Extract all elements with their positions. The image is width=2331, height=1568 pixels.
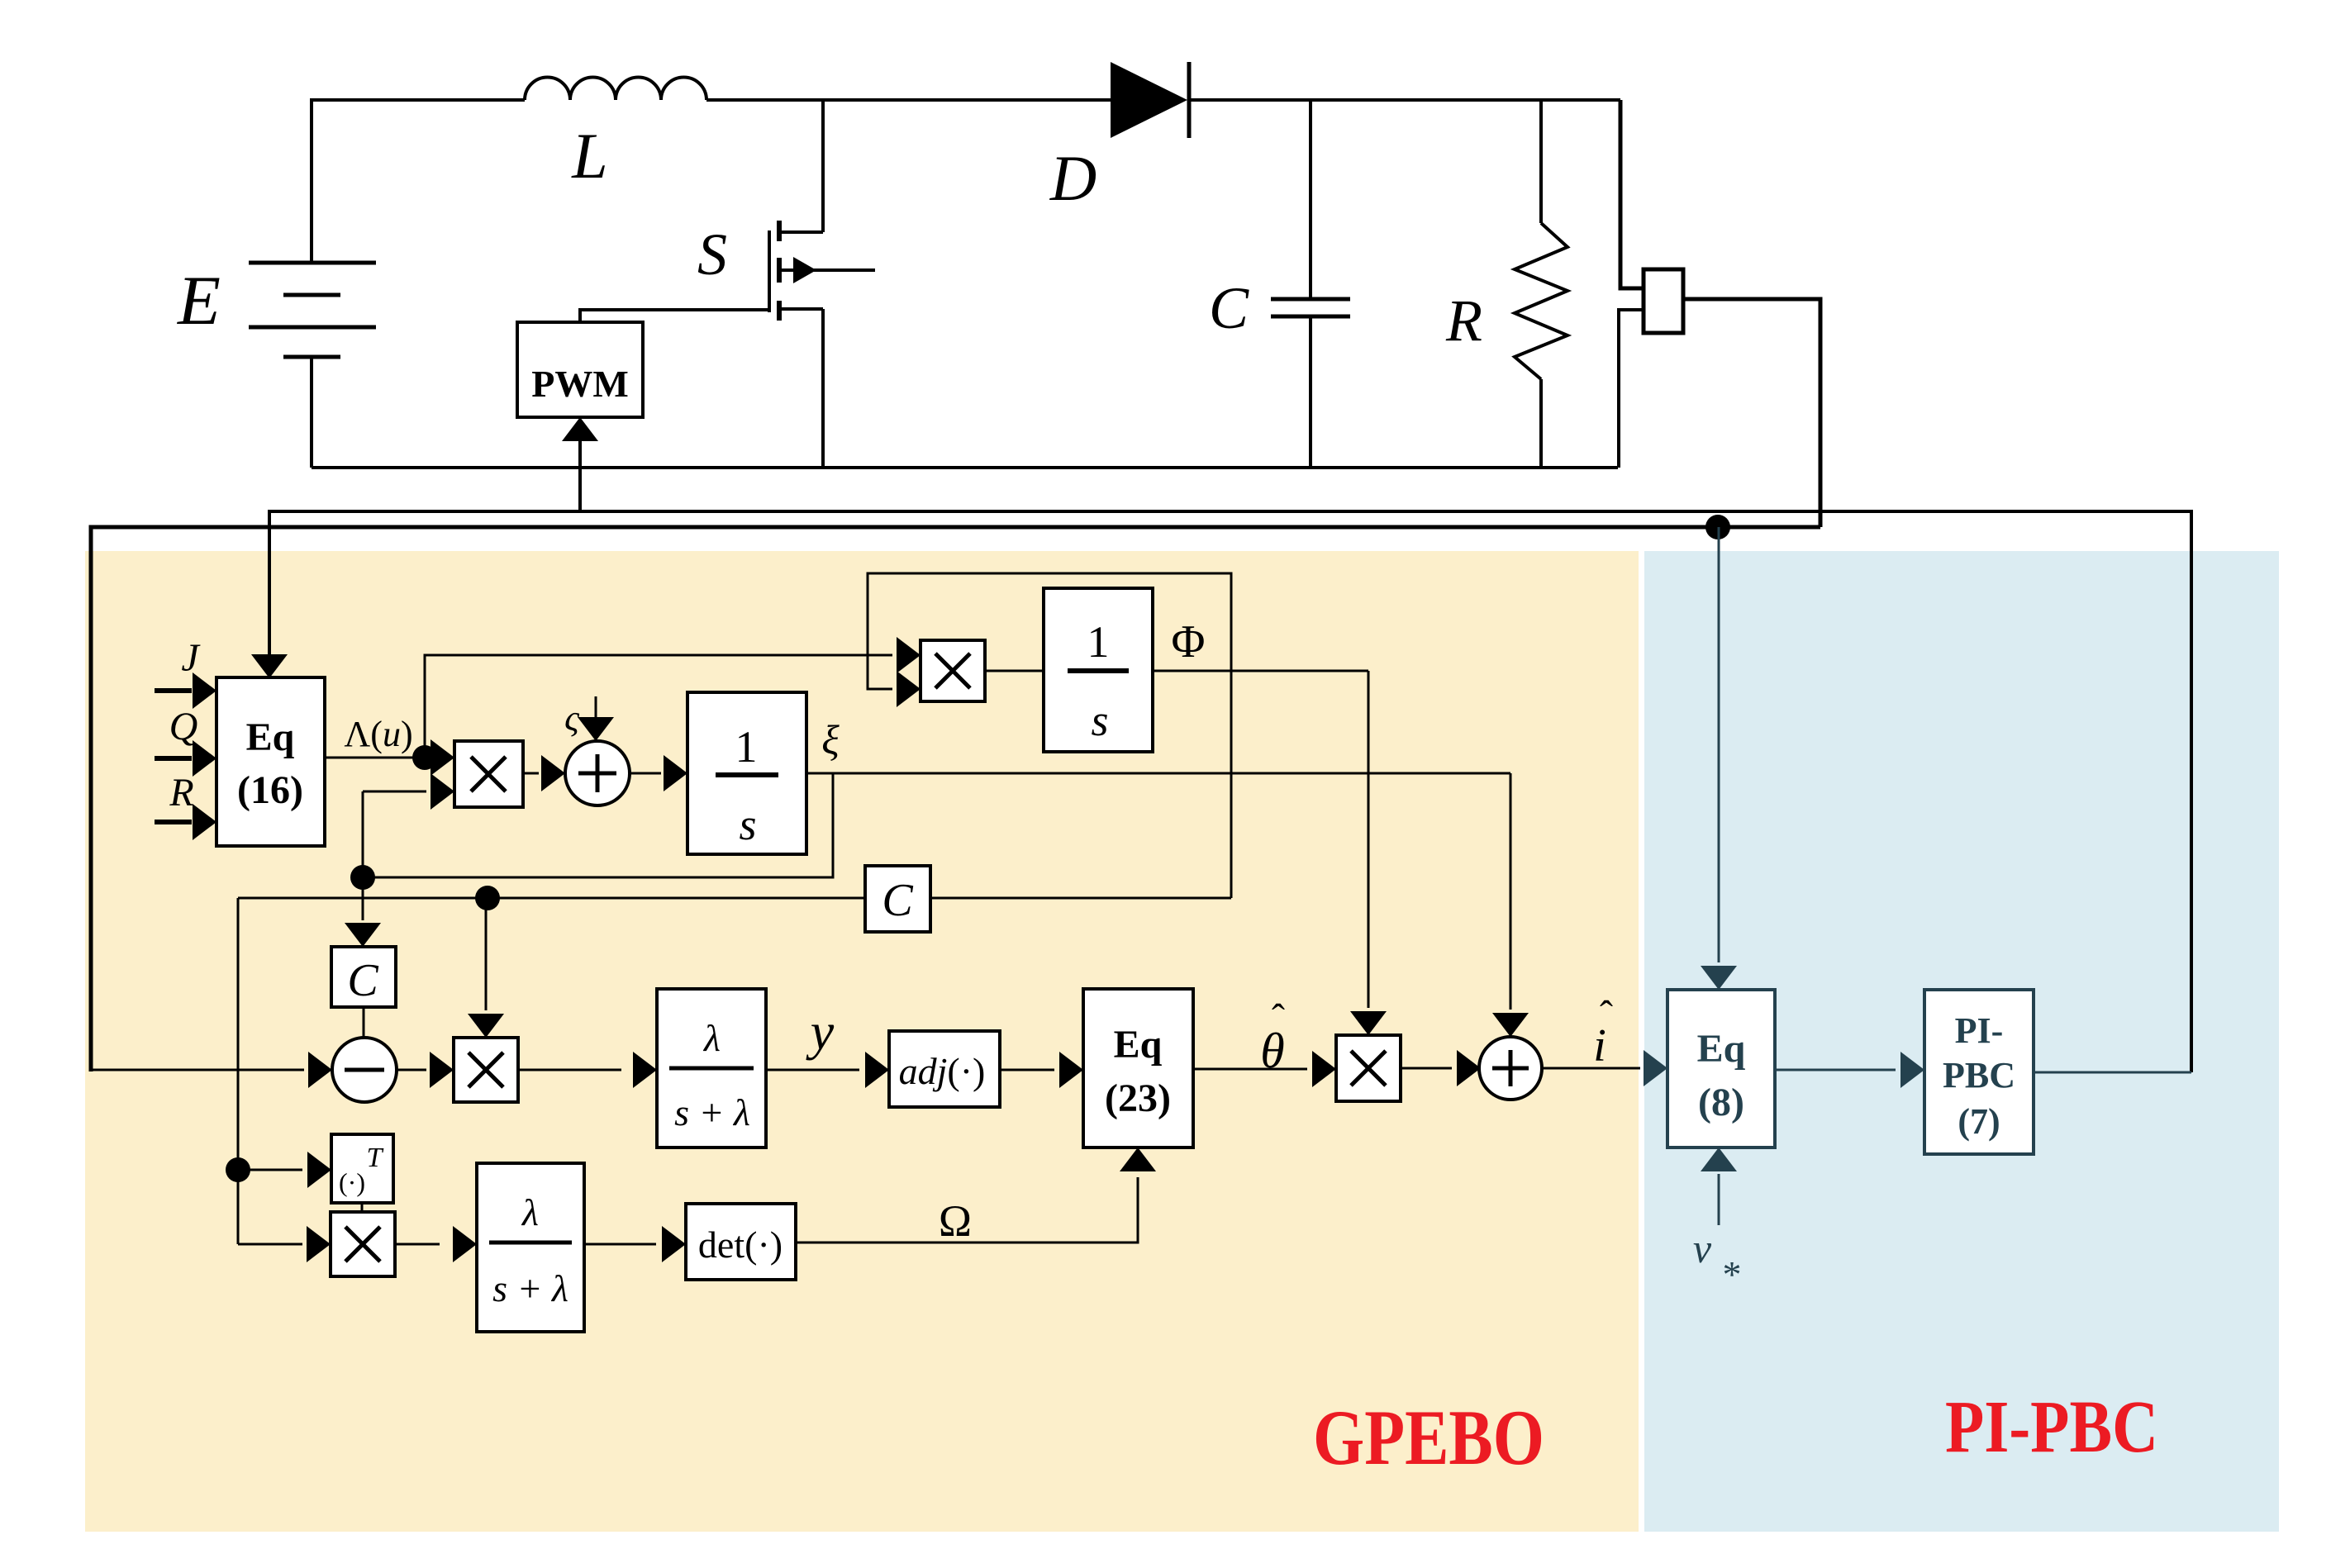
junction transpose branch [226,1157,250,1182]
wire bottom rail [312,466,1618,469]
wire C left to subtractor [363,1007,365,1038]
battery E [249,263,376,357]
label theta hat [1260,996,1285,1078]
wire i hat to Eq8 [1542,1050,1667,1086]
multiplier theta (x) [1336,1035,1401,1101]
adder plus [1479,1037,1542,1100]
wire into lower multiplier [238,1226,331,1262]
wire Phi to C block [930,897,1231,900]
block Eq (16) [216,677,325,846]
wire xi return [363,773,833,877]
svg-text:(·): (·) [339,1167,365,1197]
label D [1049,142,1097,214]
svg-text:Q: Q [169,705,198,748]
svg-text:PBC: PBC [1943,1055,2015,1095]
svg-text:C: C [882,875,913,926]
wire Phi to theta multiplier [1350,671,1387,1035]
wire inductor to diode [706,98,1111,102]
svg-text:PI-PBC: PI-PBC [1945,1386,2158,1468]
multiplier top (x) [921,640,985,701]
wire PI-PBC output to control bus [2034,1071,2191,1074]
svg-text:1: 1 [735,722,758,772]
wire PWM control input [562,417,598,511]
gain C (matrix) mid [865,866,930,932]
wire Lambda to top multiplier [425,637,921,758]
wire filter to adj [766,1052,889,1088]
svg-text:v: v [1693,1225,1712,1271]
transpose block [331,1134,393,1203]
gain C left [331,947,396,1007]
wire transpose to multiplier [361,1203,364,1212]
svg-text:L: L [571,120,607,192]
svg-text:Λ(u): Λ(u) [344,714,412,754]
filter lambda/(s+lambda) lower [477,1163,584,1332]
wire to lower filter [395,1226,477,1262]
svg-text:λ: λ [521,1191,539,1233]
block PI-PBC (7) [1924,990,2034,1154]
wire theta to multiplier [1193,1051,1336,1087]
wire into transpose [238,1152,331,1188]
wire v to Eq(8) [1701,527,1737,990]
wire xi into adder [1492,773,1529,1037]
wire Lambda(u) output [325,714,454,776]
svg-text:ς: ς [564,698,580,739]
svg-text:(23): (23) [1105,1076,1171,1120]
summer plus (varsigma) [565,741,630,805]
svg-text:PWM: PWM [531,363,629,405]
label E [177,262,221,340]
multiplier error (x) [454,1038,518,1102]
filter lambda/(s+lambda) [657,989,766,1147]
svg-text:D: D [1049,142,1097,214]
svg-text:Eq: Eq [1697,1027,1746,1071]
label i hat [1593,993,1613,1071]
wire measured voltage bus v (line B) [91,527,1820,1071]
block Eq (23) [1083,989,1193,1147]
junction to error multiplier [475,886,500,910]
svg-text:adj(·): adj(·) [899,1050,986,1092]
wire Phi feedback loop [868,573,1231,898]
wire xi output [806,772,1510,775]
input Q [155,705,216,777]
svg-text:PI-: PI- [1955,1010,2004,1051]
svg-text:s: s [739,800,756,849]
svg-text:ˆ: ˆ [1272,996,1285,1040]
label L [571,120,607,192]
wire output node down to sensor [1620,100,1644,288]
label xi [821,716,840,763]
label Phi [1172,616,1206,668]
wire filter to det [584,1226,686,1262]
svg-text:R: R [1445,287,1482,354]
voltage sensor [1644,269,1683,333]
svg-text:C: C [1209,275,1249,341]
label R [1445,287,1482,354]
wire Eq8 to PI-PBC [1775,1052,1924,1088]
svg-text:C: C [347,955,378,1006]
wire down to error multiplier [468,898,504,1038]
wire summer to integrator [630,755,687,791]
label S [697,221,727,287]
junction v to Eq8 [1705,515,1730,539]
wire sensor output v [1683,299,1820,527]
capacitor C [1271,100,1350,468]
svg-text:y: y [806,1002,835,1061]
input R [155,771,216,840]
block adj [889,1031,1000,1107]
svg-text:S: S [697,221,727,287]
wire sensor return to bottom rail [1619,310,1644,468]
GPEBO observer region (yellow) [85,551,1639,1532]
svg-text:Eq: Eq [246,715,295,759]
label C [1209,275,1249,341]
svg-text:Ω: Ω [939,1196,972,1246]
wire multiplier to adder [1401,1050,1481,1086]
wire xi feedback into multiplier [363,773,454,877]
subtractor minus [332,1038,397,1102]
wire top rail left (battery to inductor) [312,100,525,263]
diode D [1111,62,1189,138]
wire subtractor to multiplier [397,1052,454,1088]
svg-text:s + λ: s + λ [674,1091,750,1133]
wire down to transpose branch [237,898,240,1244]
svg-text:T: T [367,1143,384,1173]
input J [155,636,216,709]
wire to filter [518,1052,657,1088]
input v star [1693,1147,1742,1295]
block det [686,1204,796,1280]
label Omega [939,1196,972,1246]
svg-text:λ: λ [702,1017,721,1059]
multiplier lower (x) [331,1212,395,1276]
svg-text:(7): (7) [1958,1101,2000,1142]
PWM block [517,322,643,417]
svg-text:E: E [177,262,221,340]
svg-text:Eq: Eq [1114,1023,1163,1067]
wire control bus u (line A) [251,511,2191,1072]
wire battery bottom [310,357,313,468]
label y [806,1002,835,1061]
svg-text:s + λ: s + λ [492,1267,568,1309]
wire v into subtractor [91,1052,332,1088]
block Eq (8) [1667,990,1775,1147]
svg-text:GPEBO: GPEBO [1313,1394,1544,1481]
junction Lambda [412,745,437,770]
junction xi return [350,865,375,890]
wire multiplier to summer [523,755,565,791]
PI-PBC controller region (blue) [1644,551,2279,1532]
wire C output line [238,897,865,900]
wire top multiplier to integrator [985,670,1044,672]
wire adj to Eq23 [1000,1052,1083,1088]
svg-text:Φ: Φ [1172,616,1206,668]
input varsigma [564,696,614,741]
multiplier xi (x) [454,741,523,807]
svg-text:det(·): det(·) [698,1224,783,1266]
wire Phi output [1153,670,1368,672]
svg-text:ˆ: ˆ [1600,993,1613,1037]
svg-text:ξ: ξ [821,716,840,763]
resistor R [1515,100,1567,468]
svg-text:R: R [169,771,193,815]
svg-text:J: J [181,636,201,680]
wire gate to PWM [580,310,769,322]
svg-text:(16): (16) [237,768,303,812]
svg-text:1: 1 [1087,617,1110,667]
svg-text:(8): (8) [1698,1081,1744,1124]
svg-text:s: s [1091,696,1108,745]
wire xi down to C gain [345,877,381,947]
integrator 1/s top [1044,588,1153,752]
caption PI-PBC [1945,1386,2158,1468]
inductor L [525,78,706,101]
integrator 1/s [687,692,806,854]
transistor S (MOSFET) [769,100,875,468]
svg-text:*: * [1723,1253,1742,1295]
caption GPEBO [1313,1394,1544,1481]
wire Omega to Eq23 [796,1147,1156,1243]
wire diode to output node [1189,98,1620,102]
